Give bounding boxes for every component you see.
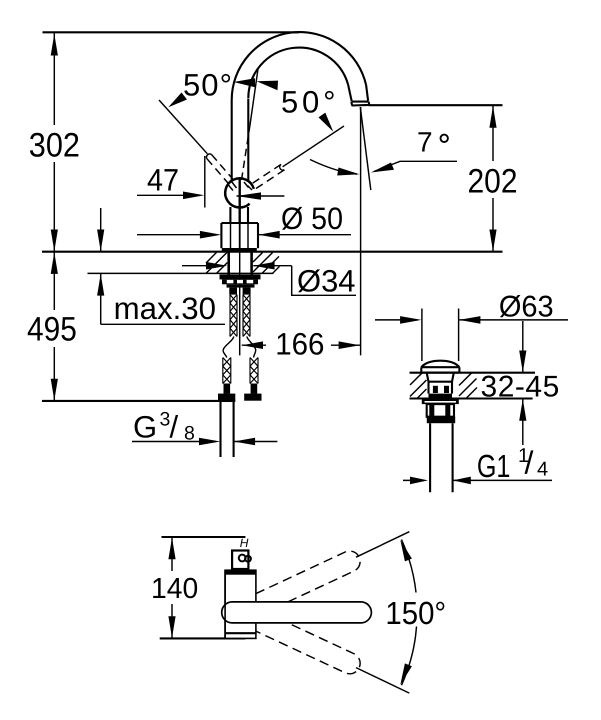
svg-text:/: / <box>525 445 534 481</box>
shank walls <box>227 252 230 275</box>
spout capsule solid <box>222 602 372 623</box>
svg-text:202: 202 <box>468 163 518 201</box>
base flange (black) <box>222 248 257 252</box>
7 degree arc arrow <box>337 168 359 176</box>
dim O50 line and arrows <box>137 234 217 236</box>
left lever dashed (open position) <box>207 155 234 184</box>
braided hose lower right <box>250 358 258 384</box>
hatching left of shank <box>206 252 227 273</box>
slotted threaded section <box>427 404 454 417</box>
dim 202 vertical line <box>492 106 494 162</box>
dim 32-45 lower line and arrow <box>522 399 524 445</box>
spout inner arc <box>248 48 348 99</box>
dim 495 vertical line <box>53 252 55 310</box>
DRAIN VIEW <box>375 290 568 492</box>
braided hose lower left <box>223 358 231 384</box>
dim 202 arrows <box>489 106 496 128</box>
basin deck top line <box>410 372 536 374</box>
svg-text:H: H <box>240 536 249 550</box>
ball inner detail lines <box>228 182 252 191</box>
bottom fitting band <box>427 417 455 424</box>
PLAN VIEW <box>151 532 451 693</box>
max30 upper arrow line <box>100 208 102 252</box>
svg-text:47: 47 <box>147 163 179 198</box>
svg-text:Ø34: Ø34 <box>297 264 356 299</box>
mounting nut band 1 <box>220 274 261 279</box>
swivel legs <box>356 532 409 558</box>
7 degree label leader <box>374 161 457 171</box>
dim 495 arrows <box>51 252 58 274</box>
hose break S-curve right <box>247 337 256 358</box>
G3/8 dim line and arrows <box>132 441 216 443</box>
tailpipe <box>429 423 431 492</box>
lever plan box <box>232 551 248 570</box>
O63 extension line left <box>421 309 423 362</box>
50 left arc arrow at lever axis <box>234 78 256 87</box>
arc arrowheads <box>400 540 412 562</box>
cap band <box>421 367 459 372</box>
basin deck bottom line <box>410 397 533 399</box>
hatching right of shank <box>253 252 280 273</box>
body inner lines <box>230 223 232 248</box>
spout outer arc <box>232 32 366 100</box>
body shoulder <box>221 222 258 224</box>
svg-text:max.30: max.30 <box>114 291 216 326</box>
hose end fitting right <box>251 384 258 394</box>
svg-text:Ø 50: Ø 50 <box>281 201 343 236</box>
dim 140 line <box>171 537 173 571</box>
drain body walls <box>427 382 429 394</box>
dim 302 vertical line <box>53 33 55 125</box>
countertop line <box>42 251 503 253</box>
7 degree tilted line <box>360 107 371 190</box>
lever rod through ball <box>238 179 240 224</box>
O34 label leader <box>292 266 356 296</box>
svg-text:/: / <box>170 409 179 444</box>
right lever cap arc <box>280 164 285 170</box>
lever axis line (upright, tilted 8deg) <box>250 69 258 125</box>
deck hatching left <box>410 373 427 399</box>
lever plan circles <box>239 555 246 562</box>
dim 47 line and arrows <box>137 194 200 196</box>
left 50 leg arrow <box>168 93 187 108</box>
mounting nut band 2 slotted <box>222 279 258 284</box>
G3/8 tube below left fitting <box>219 401 221 457</box>
right 50 leg arrow <box>319 113 334 132</box>
dim 166 line right arrow <box>331 344 361 346</box>
left 50 leg line <box>159 100 207 154</box>
hose nut left <box>229 288 237 295</box>
202 reference line from spout <box>369 104 503 106</box>
150 deg text white backing <box>382 593 451 627</box>
right 50 leg line <box>283 126 344 167</box>
dim 47 extension line <box>204 156 206 208</box>
svg-text:50°: 50° <box>281 85 336 120</box>
water stream vertical line <box>360 107 362 355</box>
lower dark band <box>429 394 453 399</box>
7 degree arc <box>310 160 357 175</box>
right lever dashed (open position) <box>251 164 284 189</box>
dim 302 arrows <box>51 34 58 56</box>
svg-text:166: 166 <box>275 326 324 361</box>
MAIN ELEVATION VIEW <box>27 32 518 457</box>
svg-text:302: 302 <box>29 126 80 164</box>
top reference line <box>162 536 246 538</box>
lever ball joint <box>225 178 254 207</box>
dim O34 line and arrows <box>182 265 223 267</box>
dim 32-45 upper line and arrow <box>522 321 524 373</box>
braided hose upper right <box>243 295 250 337</box>
svg-text:50°: 50° <box>183 67 232 102</box>
O63 dim line arrows <box>375 319 418 321</box>
dashed spout position lower <box>229 599 364 677</box>
svg-text:4: 4 <box>537 458 548 480</box>
svg-text:150°: 150° <box>385 595 446 631</box>
top reference line (spout height) <box>43 31 300 33</box>
bottom reference line <box>160 637 246 639</box>
hose break S-curve left <box>223 337 234 358</box>
drain plug cap dome <box>421 361 459 368</box>
swivel 150 arc <box>402 540 418 686</box>
dashed spout position upper <box>229 548 364 626</box>
overflow holes <box>433 386 438 393</box>
mounting nut band 3 <box>227 284 255 287</box>
svg-text:495: 495 <box>27 310 77 348</box>
body bottom inner line <box>225 632 256 634</box>
spout outlet tube <box>348 85 368 101</box>
faucet centerline below counter <box>239 252 241 356</box>
svg-text:G: G <box>133 409 157 444</box>
drain neck taper <box>427 373 454 382</box>
body top black band <box>225 570 256 574</box>
braided hose upper left <box>230 295 237 337</box>
svg-text:32-45: 32-45 <box>481 371 560 404</box>
svg-text:140: 140 <box>151 573 198 605</box>
svg-text:Ø63: Ø63 <box>499 290 554 323</box>
counter underside line (max.30 ref) <box>88 272 274 274</box>
hose end fitting left <box>224 384 231 394</box>
O63 extension line right <box>458 309 460 362</box>
deck hatching right <box>459 373 477 399</box>
neck below ball <box>229 207 231 223</box>
max30 lower arrow and leader <box>100 274 102 324</box>
bottom reference line (hose length) <box>42 400 235 402</box>
left lever cap arc <box>207 154 212 159</box>
body left edge redrawn over capsule <box>224 570 226 638</box>
dim 166 line left arrow <box>242 344 266 346</box>
svg-text:7: 7 <box>417 127 433 158</box>
hose nut right <box>243 288 251 295</box>
faucet body plan <box>225 570 256 638</box>
locknut ring <box>422 399 459 404</box>
body outer walls <box>220 223 222 248</box>
faucet riser pipe <box>231 100 233 181</box>
spout outlet face <box>351 102 369 106</box>
G1 1/4 dim line and arrows <box>403 479 424 481</box>
50 right arc arrow at lever axis <box>257 81 278 91</box>
svg-text:G1: G1 <box>477 448 511 484</box>
